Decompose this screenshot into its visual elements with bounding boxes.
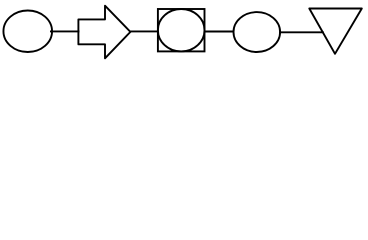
inscribed circle: [158, 9, 205, 51]
triangle node: [309, 9, 362, 54]
circle node 1: [3, 11, 52, 53]
circle node 2: [233, 12, 280, 52]
wire: [50, 30, 80, 32]
wire: [131, 30, 159, 32]
block arrow: [78, 6, 130, 59]
wire: [204, 31, 235, 33]
wire: [279, 31, 324, 33]
square node: [158, 9, 205, 51]
